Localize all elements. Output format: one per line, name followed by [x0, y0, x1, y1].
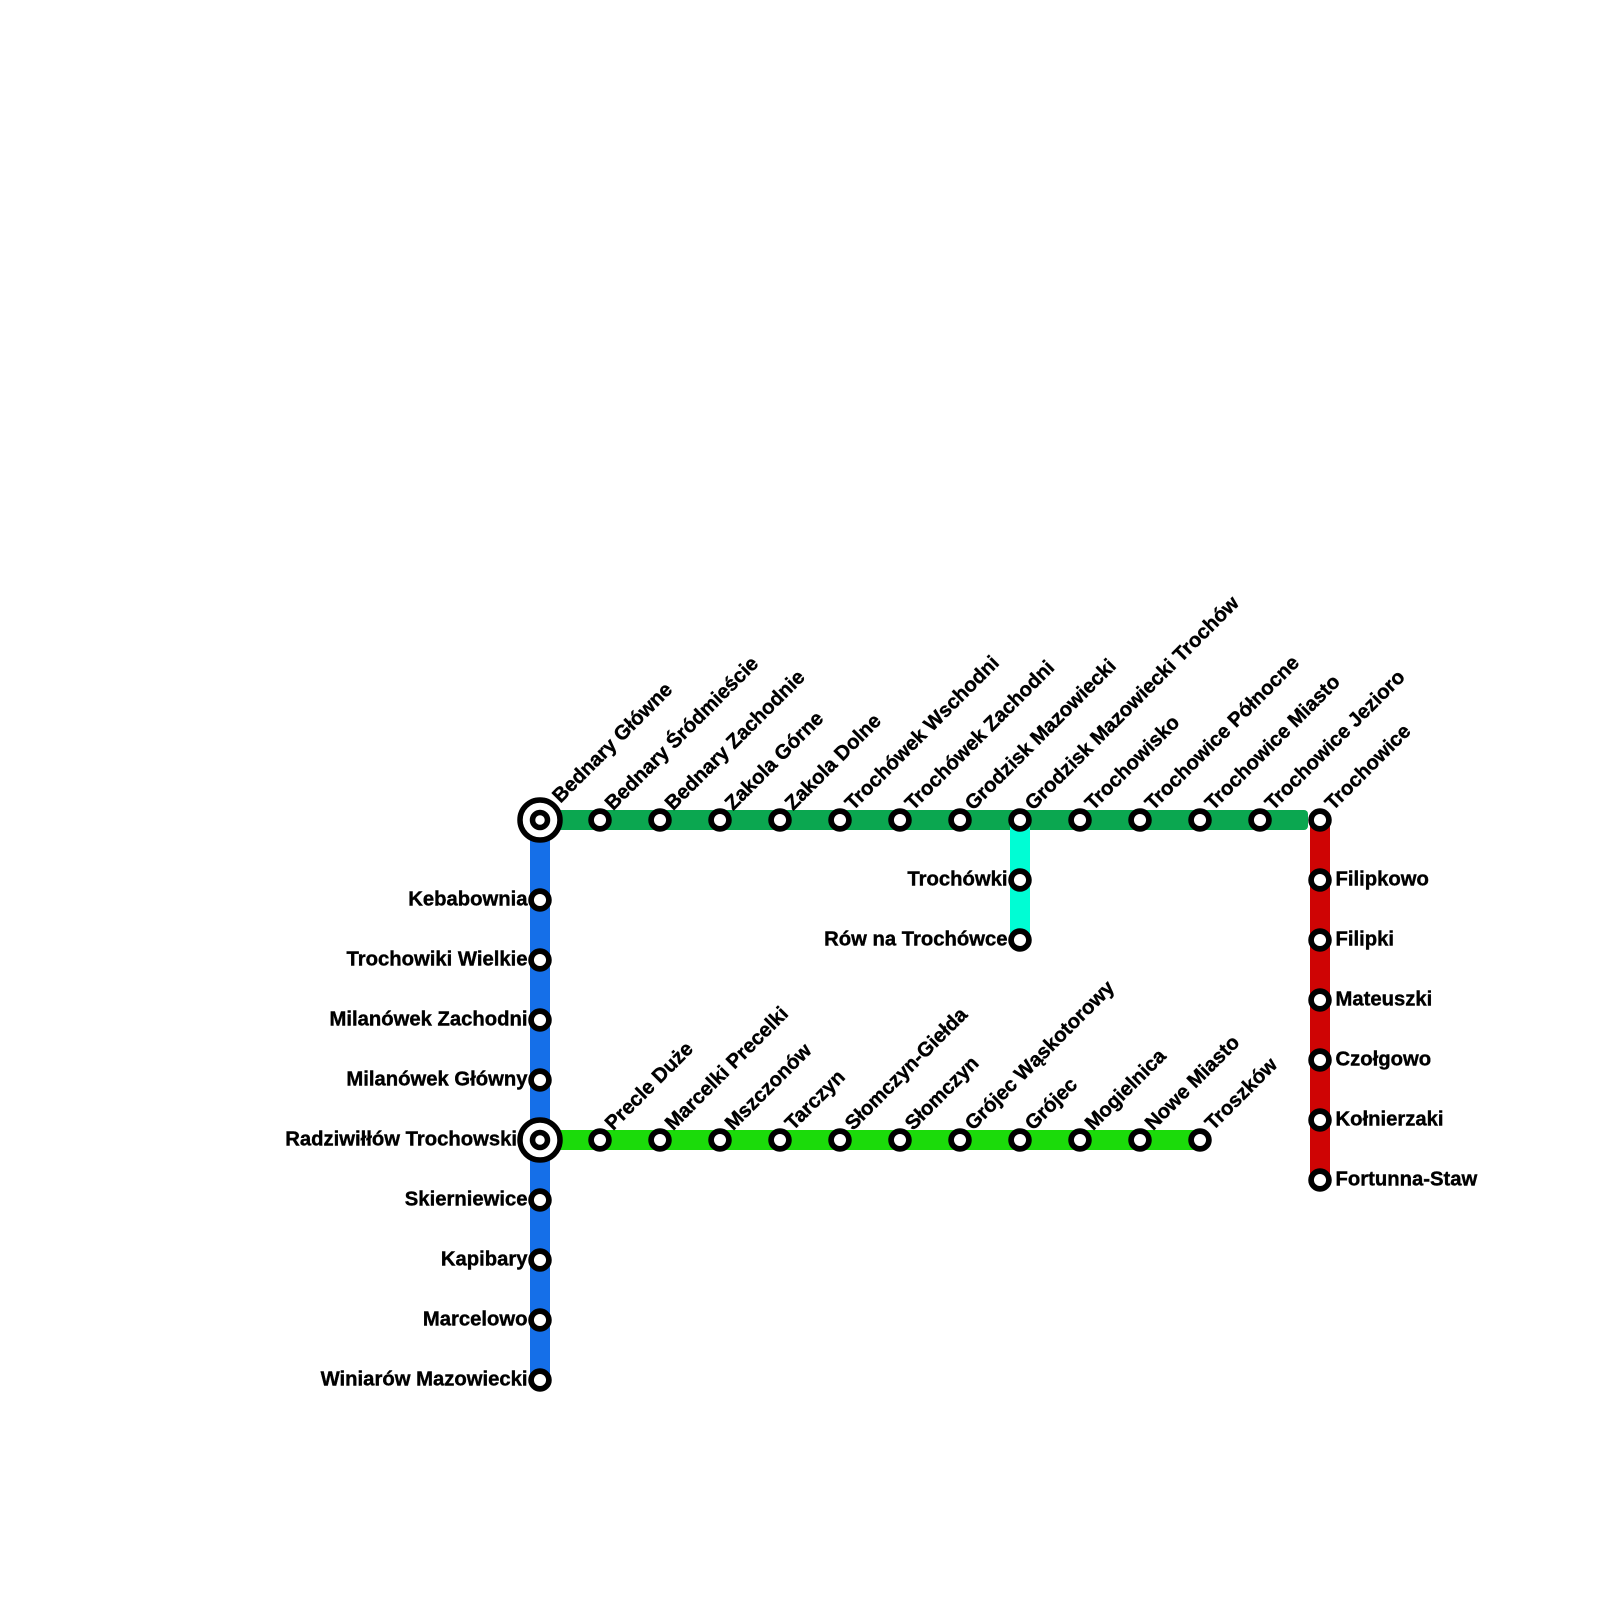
svg-text:Radziwiłłów Trochowski: Radziwiłłów Trochowski	[285, 1129, 517, 1151]
station: Trochówki	[907, 869, 1029, 891]
station: Trochowice	[1311, 720, 1415, 829]
station: Grójec Wąskotorowy	[951, 976, 1119, 1149]
svg-text:Mateuszki: Mateuszki	[1336, 989, 1433, 1011]
svg-text:Czołgowo: Czołgowo	[1336, 1049, 1432, 1071]
svg-text:Fortunna-Staw: Fortunna-Staw	[1336, 1169, 1478, 1191]
svg-text:Trochowiki Wielkie: Trochowiki Wielkie	[347, 949, 528, 971]
station: Czołgowo	[1311, 1049, 1431, 1071]
station: Grodzisk Mazowiecki Trochów	[1011, 592, 1244, 829]
line: cyan branch (Grodzisk Mazowiecki Trochów - Rów na Trochówce)	[1010, 820, 1030, 940]
station: Milanówek Zachodni	[329, 1009, 548, 1031]
svg-text:Filipki: Filipki	[1336, 929, 1395, 951]
station: Troszków	[1191, 1054, 1282, 1149]
station: Trochowisko	[1071, 712, 1184, 829]
station: Trochówek Zachodni	[891, 657, 1059, 829]
station: Trochowiki Wielkie	[347, 949, 549, 971]
station: Rów na Trochówce	[824, 929, 1029, 951]
svg-text:Filipkowo: Filipkowo	[1336, 869, 1429, 891]
station: Marcelki Precelki	[651, 1003, 793, 1149]
station: Filipkowo	[1311, 869, 1429, 891]
station: Fortunna-Staw	[1311, 1169, 1477, 1191]
svg-text:Kapibary: Kapibary	[441, 1249, 528, 1271]
station: Winiarów Mazowiecki	[321, 1369, 549, 1391]
svg-text:Rów na Trochówce: Rów na Trochówce	[824, 929, 1007, 951]
station: Bednary Główne	[520, 679, 677, 840]
station: Mszczonów	[711, 1039, 816, 1148]
station: Marcelowo	[423, 1309, 549, 1331]
svg-text:Milanówek Główny: Milanówek Główny	[346, 1069, 528, 1091]
station: Filipki	[1311, 929, 1394, 951]
svg-text:Marcelowo: Marcelowo	[423, 1309, 528, 1331]
line: sea-green trunk (Bednary Główne - Trochowice)	[530, 810, 1308, 830]
station: Mogielnica	[1071, 1045, 1171, 1149]
station: Mateuszki	[1311, 989, 1432, 1011]
station: Zakola Dolne	[771, 710, 886, 829]
svg-text:Milanówek Zachodni: Milanówek Zachodni	[329, 1009, 527, 1031]
line: blue (Bednary Główne - Winiarów Mazowiecki)	[530, 820, 550, 1380]
station: Nowe Miasto	[1131, 1032, 1244, 1149]
station: Grójec	[1011, 1074, 1082, 1149]
line: bright-green (Radziwiłłów Trochowski - Troszków)	[540, 1130, 1200, 1150]
station: Skierniewice	[405, 1189, 549, 1211]
line: dark-red (Trochowice - Fortunna-Staw)	[1310, 820, 1330, 1180]
svg-text:Winiarów Mazowiecki: Winiarów Mazowiecki	[321, 1369, 528, 1391]
station: Radziwiłłów Trochowski	[285, 1120, 560, 1160]
svg-text:Kołnierzaki: Kołnierzaki	[1336, 1109, 1444, 1131]
station: Trochowice Jezioro	[1251, 666, 1409, 829]
station: Kapibary	[441, 1249, 549, 1271]
station: Bednary Śródmieście	[591, 651, 763, 829]
station: Zakola Górne	[711, 708, 828, 829]
station: Tarczyn	[771, 1066, 850, 1149]
station: Grodzisk Mazowiecki	[951, 655, 1121, 829]
station: Milanówek Główny	[346, 1069, 549, 1091]
station: Słomczyn-Giełda	[831, 1003, 972, 1149]
station: Kołnierzaki	[1311, 1109, 1443, 1131]
station: Bednary Zachodnie	[651, 666, 809, 829]
station: Trochowice Północne	[1131, 652, 1304, 829]
svg-text:Kebabownia: Kebabownia	[408, 889, 528, 911]
svg-text:Trochówki: Trochówki	[907, 869, 1007, 891]
station: Kebabownia	[408, 889, 549, 911]
svg-text:Skierniewice: Skierniewice	[405, 1189, 528, 1211]
station: Trochówek Wschodni	[831, 652, 1004, 829]
station: Trochowice Miasto	[1191, 671, 1345, 829]
station: Słomczyn	[891, 1052, 983, 1149]
station: Precle Duże	[591, 1038, 698, 1149]
